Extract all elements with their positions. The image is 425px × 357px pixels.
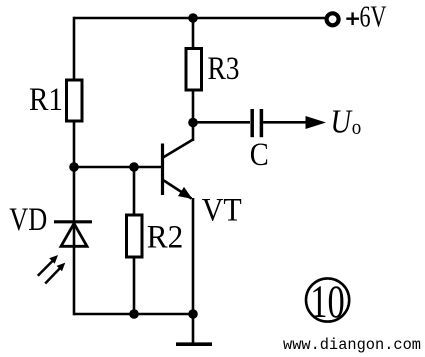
ground (176, 342, 212, 346)
svg-text:10: 10 (310, 276, 345, 328)
figure number 10 circle (306, 278, 349, 321)
wire emitter down (192, 198, 195, 314)
resistor R3 (186, 49, 202, 91)
cathode bar (54, 220, 92, 223)
light arrow 2 (45, 263, 65, 284)
label +6V plus sign (346, 18, 359, 20)
plate left (250, 109, 254, 137)
wire bottom rail (74, 313, 193, 316)
node emitter / ground junction (188, 309, 198, 319)
svg-text:U: U (331, 104, 354, 141)
wire R3 / collector branch top (192, 18, 195, 123)
capacitor C (252, 109, 261, 137)
base bar (161, 144, 164, 196)
wire left branch vertical (73, 17, 76, 316)
collector diagonal (163, 140, 193, 158)
svg-text:o: o (352, 114, 362, 139)
wire capacitor feed (193, 121, 250, 124)
svg-text:R1: R1 (29, 82, 63, 118)
emitter arrowhead (178, 187, 192, 199)
wire top rail (74, 17, 327, 20)
svg-text:VT: VT (202, 193, 242, 229)
svg-text:www.diangon.com: www.diangon.com (283, 336, 421, 354)
wire R2 branch (133, 167, 136, 314)
node R2 bottom junction (129, 309, 139, 319)
wire ground stem (192, 314, 195, 343)
node top rail / R3 junction (188, 13, 198, 23)
power terminal +6V (327, 13, 339, 25)
svg-text:VD: VD (9, 202, 47, 238)
collector vertical (192, 123, 195, 142)
node collector / capacitor junction (188, 118, 198, 128)
svg-text:R2: R2 (147, 220, 184, 256)
anode triangle (61, 224, 87, 247)
resistor R2 (127, 215, 143, 257)
emitter diagonal (163, 180, 192, 199)
svg-text:C: C (250, 137, 269, 173)
photodiode VD (38, 222, 92, 284)
wire capacitor to output (263, 121, 310, 124)
transistor VT (163, 123, 194, 199)
node left branch / base junction (69, 162, 79, 172)
light arrow 1 (38, 255, 58, 276)
node R2 top junction (129, 162, 139, 172)
svg-text:6V: 6V (360, 0, 387, 34)
wire base (74, 166, 161, 169)
resistor R1 (67, 80, 83, 121)
plate right (260, 109, 264, 137)
output arrowhead (306, 116, 327, 129)
svg-text:R3: R3 (208, 51, 240, 87)
